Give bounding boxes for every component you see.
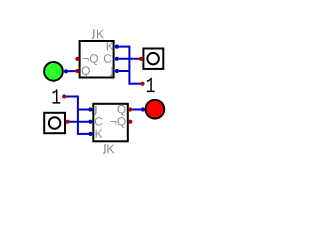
button S1 output pin dot — [139, 57, 143, 61]
flip-flop U2 pin label notQ — [110, 117, 125, 128]
flip-flop U2 output pin dot notQ — [128, 120, 132, 124]
flip-flop U1 pin label Q — [82, 66, 90, 77]
flip-flop U1 label JK — [92, 29, 104, 38]
flip-flop U1 pin label K — [107, 42, 114, 50]
flip-flop U2 pin label Q — [117, 105, 125, 116]
flip-flop U2 box — [93, 104, 128, 142]
button S1 box — [143, 49, 163, 69]
constant 1 (bottom) value label — [52, 89, 60, 103]
wire bus2 vertical — [77, 96, 79, 135]
flip-flop U1 input pin dot C — [115, 57, 119, 61]
flip-flop U1 pin label notQ — [83, 54, 98, 65]
flip-flop U2 pin label C — [95, 117, 103, 126]
LED D2 input pin dot — [141, 107, 145, 111]
flip-flop U2 input pin dot J — [88, 107, 92, 111]
flip-flop U1 output pin dot notQ — [75, 57, 79, 61]
wire bus2 to K row FF2 — [78, 133, 91, 135]
button S2 box — [44, 113, 65, 133]
flip-flop U2 input pin dot C — [88, 120, 92, 124]
wire J row FF1 stub — [117, 70, 129, 72]
flip-flop U2 pin label J — [94, 106, 96, 115]
flip-flop U1 input pin dot K — [115, 45, 119, 49]
button S2 circle — [49, 117, 61, 129]
wire button S2 to C row FF2 — [68, 121, 91, 123]
LED D1 green — [44, 62, 63, 81]
LED D1 input pin dot — [64, 69, 68, 73]
wire constant 1 (bottom) to bus2 — [64, 96, 78, 98]
button S2 output pin dot — [66, 120, 70, 124]
flip-flop U1 pin label C — [104, 54, 112, 63]
flip-flop U1 output pin dot Q — [75, 69, 79, 73]
wire J1 stub K row FF1 — [117, 46, 129, 48]
flip-flop U2 pin label K — [96, 129, 103, 137]
flip-flop U1 input pin dot J — [115, 69, 119, 73]
wire bus1 vertical — [128, 46, 130, 85]
LED D2 red — [146, 100, 165, 119]
flip-flop U2 input pin dot K — [88, 132, 92, 136]
flip-flop U2 label JK — [103, 144, 114, 153]
wire Q FF1 to LED D1 — [66, 70, 77, 72]
wire bus2 to J row FF2 — [78, 109, 91, 111]
wire C row FF1 to button S1 — [117, 58, 141, 60]
constant 1 (top) output pin dot — [140, 82, 144, 86]
button S1 circle — [147, 53, 159, 65]
constant 1 (bottom) output pin dot — [62, 94, 66, 98]
wire Q FF2 to LED D2 — [130, 109, 143, 111]
wire bus1 to constant 1 — [129, 83, 142, 85]
flip-flop U1 box — [80, 41, 114, 78]
flip-flop U1 pin label J — [110, 67, 112, 76]
constant 1 (top) value label — [147, 78, 155, 92]
flip-flop U2 output pin dot Q — [128, 107, 132, 111]
